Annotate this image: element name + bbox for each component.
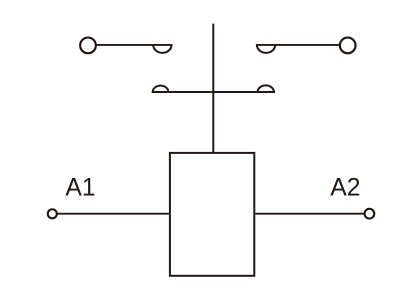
svg-text:A2: A2: [330, 174, 360, 201]
terminal circle A2: [365, 209, 375, 219]
terminal circle A1: [48, 209, 57, 218]
wire: A1 lead to coil: [58, 213, 169, 215]
svg-text:A1: A1: [65, 174, 95, 201]
coil K1 (operating coil rectangle): [170, 153, 254, 276]
wire: top-right fixed contact lead: [256, 44, 339, 46]
wire: A2 lead from coil: [255, 213, 363, 215]
wire: movable bridge bar: [152, 91, 275, 93]
fixed contact half-moon top-left: [153, 45, 171, 53]
wire: vertical actuator link from top to coil: [212, 24, 214, 153]
wire: top-left fixed contact lead: [97, 44, 173, 46]
contact terminal circle top-right: [340, 38, 356, 54]
fixed contact half-moon top-right: [257, 45, 275, 53]
movable contact half-moon right: [258, 85, 274, 92]
contact terminal circle top-left: [80, 38, 96, 54]
movable contact half-moon left: [153, 86, 169, 92]
